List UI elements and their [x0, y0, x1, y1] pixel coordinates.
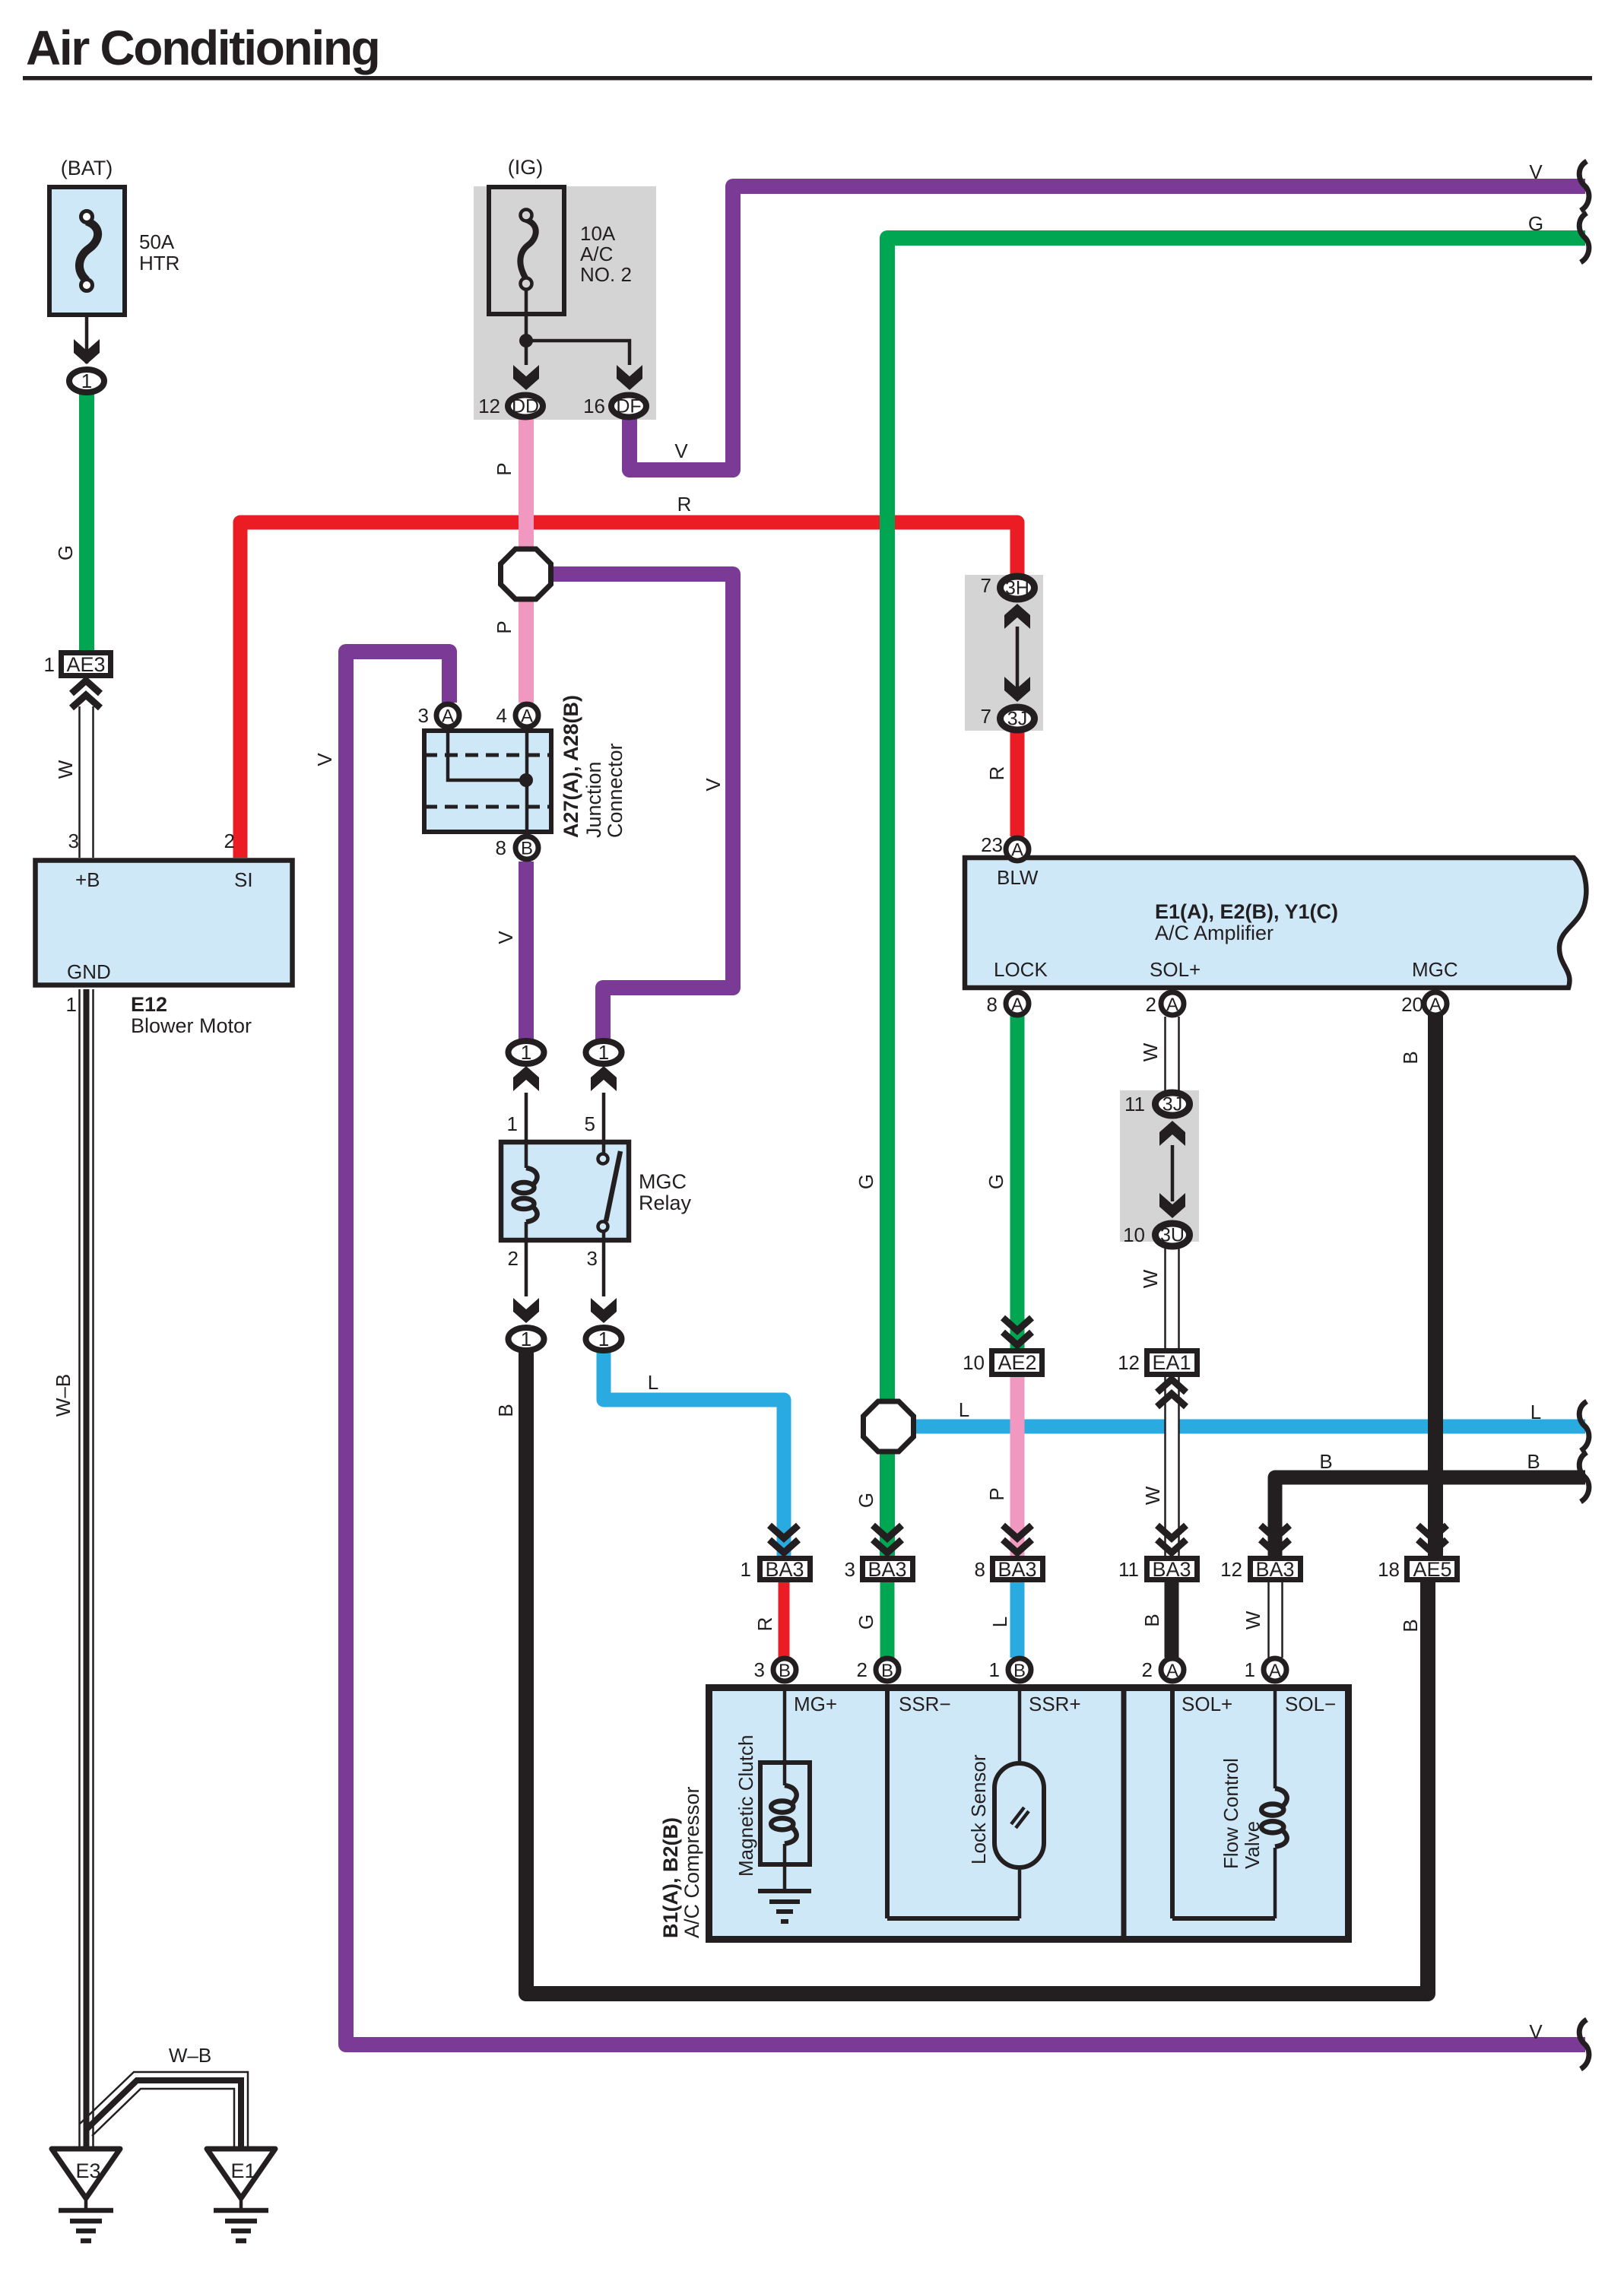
junction dot in IG block [519, 334, 533, 347]
svg-text:8: 8 [496, 836, 506, 859]
svg-text:W: W [1139, 1269, 1162, 1288]
svg-text:50A: 50A [139, 230, 175, 253]
ground E1 stem [239, 2198, 243, 2210]
lock sensor slashes [1011, 1807, 1024, 1824]
svg-text:EA1: EA1 [1152, 1351, 1191, 1374]
wire G green: 3 BA3 down to compressor pin 2 SSR- [880, 1582, 895, 1658]
svg-text:A: A [1429, 995, 1442, 1015]
A/C amplifier box with torn right edge [965, 858, 1586, 988]
svg-text:LOCK: LOCK [994, 958, 1048, 981]
svg-text:2: 2 [1146, 993, 1156, 1016]
connector circle B pin2 compressor [876, 1658, 899, 1681]
double chevron up below AE3 [71, 681, 100, 708]
svg-text:(IG): (IG) [508, 156, 544, 179]
flow control valve right leg lower [1274, 1848, 1277, 1918]
wire V purple: DF down, right, up, across top to right edge [630, 186, 1585, 470]
svg-text:E1(A), E2(B), Y1(C): E1(A), E2(B), Y1(C) [1155, 900, 1338, 923]
svg-text:A/C: A/C [580, 243, 613, 265]
connector circle A pin2 compressor [1161, 1658, 1184, 1681]
svg-text:BA3: BA3 [1152, 1558, 1191, 1581]
wire R red: blower SI up, across, down to 3H [240, 522, 1017, 858]
svg-text:10: 10 [963, 1351, 985, 1374]
connector circle B pin3 compressor [773, 1658, 796, 1681]
svg-text:A: A [1011, 995, 1023, 1015]
relay switch lead pin 3 [602, 1232, 606, 1296]
svg-text:1: 1 [507, 1112, 518, 1135]
svg-text:P: P [493, 620, 515, 633]
svg-text:(BAT): (BAT) [61, 157, 113, 179]
connector circle A pin4 junction [515, 704, 538, 727]
svg-text:1: 1 [598, 1328, 609, 1350]
junction connector internal wire from A4 to B8 [525, 730, 529, 833]
svg-text:16: 16 [583, 395, 605, 417]
svg-text:A/C Compressor: A/C Compressor [680, 1786, 703, 1938]
connector circle A pin1 compressor [1264, 1658, 1286, 1681]
svg-text:SOL+: SOL+ [1182, 1693, 1232, 1715]
svg-text:B: B [1399, 1619, 1422, 1632]
svg-text:DF: DF [616, 396, 641, 417]
svg-text:BA3: BA3 [868, 1558, 906, 1581]
wire L blue: 8 BA3 down to compressor pin 1 SSR+ [1010, 1582, 1025, 1658]
svg-text:7: 7 [981, 574, 991, 597]
relay coil [514, 1168, 538, 1222]
arrow down into relay pin3 lower connector [591, 1298, 617, 1323]
svg-text:V: V [674, 439, 688, 462]
compressor internal divider [1121, 1684, 1127, 1943]
double chevron down into 8 BA3 [1003, 1525, 1032, 1553]
svg-text:4: 4 [496, 704, 507, 727]
wire V purple: branch down from corner to relay pin 5 connector [550, 574, 733, 1040]
wire B black: horizontal from right edge to corner down into 12 BA3 [1275, 1477, 1585, 1556]
wire V purple: junction connector A3 left and long run down to bottom right edge [346, 652, 1585, 2045]
svg-text:W–B: W–B [169, 2044, 211, 2067]
wire W white: 12 EA1 down across L wire to 11 BA3 [1166, 1376, 1179, 1556]
wire W white: 12 BA3 down to compressor pin 1 SOL- [1269, 1582, 1283, 1658]
svg-text:2: 2 [224, 830, 235, 852]
wire W white: 10 3U down to 12 EA1 [1166, 1249, 1179, 1350]
svg-text:Connector: Connector [604, 743, 626, 838]
svg-text:B: B [1319, 1450, 1332, 1473]
svg-text:Blower Motor: Blower Motor [131, 1014, 252, 1037]
svg-text:10: 10 [1123, 1223, 1145, 1246]
squiggle break L right [1579, 1401, 1589, 1451]
svg-text:1: 1 [598, 1041, 609, 1064]
svg-text:P: P [985, 1487, 1008, 1500]
compressor magnetic clutch lead from pin 3 [783, 1684, 787, 1760]
double chevron down into 11 BA3 [1157, 1525, 1186, 1553]
svg-text:MGC: MGC [1412, 958, 1458, 981]
lock sensor circuit right leg lower [1018, 1870, 1022, 1918]
A/C compressor box [709, 1688, 1349, 1940]
wire R red: 3J down to amplifier pin 23 BLW [1010, 731, 1025, 836]
svg-text:G: G [54, 545, 77, 560]
svg-text:1: 1 [1245, 1658, 1255, 1681]
connector box 3 BA3 [863, 1559, 913, 1580]
magnetic clutch wire lower [783, 1844, 787, 1891]
connector ellipse 3H [1001, 576, 1035, 599]
wire P pink: 10 AE2 down to 8 BA3 [1010, 1376, 1025, 1556]
wire G green: long run from right edge, left, down to 3 BA3 and compressor SSR- [887, 238, 1585, 1556]
wire V purple: junction connector B8 down to relay pin 1 connector [519, 862, 534, 1040]
connector box 10 AE2 [992, 1351, 1042, 1375]
connector box 12 BA3 [1251, 1559, 1301, 1580]
svg-text:E1: E1 [230, 2159, 255, 2182]
svg-text:B: B [1140, 1614, 1163, 1626]
svg-text:1: 1 [989, 1658, 1000, 1681]
wire: BAT fuse to connector 1 [85, 317, 89, 363]
squiggle break V bottom right [1579, 2020, 1589, 2069]
svg-text:P: P [493, 462, 515, 475]
svg-text:L: L [959, 1398, 969, 1421]
connector box 8 BA3 [993, 1559, 1043, 1580]
svg-text:E12: E12 [131, 993, 167, 1016]
flow control valve right leg upper from pin 1 SOL- [1274, 1684, 1277, 1788]
svg-text:Relay: Relay [639, 1192, 692, 1214]
svg-text:R: R [753, 1617, 776, 1632]
svg-text:1: 1 [66, 993, 77, 1016]
svg-text:A: A [1011, 840, 1023, 861]
connector circle A pin23 amplifier [1006, 838, 1029, 861]
wire B black: 18 AE5 down, left along bottom, up to relay pin 2 connector [526, 1352, 1428, 1994]
svg-text:B: B [521, 839, 533, 859]
svg-text:2: 2 [1142, 1658, 1153, 1681]
junction connector A27(A),A28(B) box [424, 731, 551, 832]
svg-text:L: L [988, 1617, 1011, 1627]
svg-text:L: L [1530, 1401, 1541, 1423]
svg-text:V: V [494, 931, 517, 944]
svg-text:Magnetic Clutch: Magnetic Clutch [734, 1735, 757, 1877]
svg-text:SI: SI [234, 868, 253, 891]
junction connector internal dashed line upper [424, 754, 551, 757]
relay switch lead pin 5 [602, 1093, 606, 1153]
double chevron down into 18 AE5 [1418, 1525, 1447, 1553]
svg-text:3: 3 [587, 1247, 598, 1270]
connector ellipse 1 relay pin2 lower [509, 1328, 544, 1350]
svg-text:G: G [855, 1614, 877, 1629]
connector ellipse 1 relay pin1 [509, 1041, 544, 1064]
svg-text:12: 12 [478, 395, 500, 417]
svg-text:A: A [1269, 1661, 1281, 1681]
svg-text:A: A [442, 706, 454, 727]
svg-text:20: 20 [1401, 993, 1423, 1016]
svg-text:V: V [1529, 160, 1543, 183]
relay coil lead pin 1 [525, 1093, 528, 1168]
svg-text:1: 1 [44, 653, 55, 676]
svg-text:12: 12 [1220, 1558, 1242, 1581]
svg-text:GND: GND [67, 960, 111, 983]
arrow down into 3J [1004, 677, 1030, 702]
connector circle A pin20 amplifier [1424, 992, 1447, 1015]
svg-text:3: 3 [418, 704, 429, 727]
flow control valve bottom leg [1172, 1916, 1275, 1921]
svg-text:BA3: BA3 [998, 1558, 1036, 1581]
MGC relay box [501, 1142, 629, 1240]
relay switch contact top [598, 1154, 608, 1164]
svg-text:3U: 3U [1160, 1225, 1185, 1246]
magnetic clutch wire upper [783, 1760, 787, 1785]
svg-text:SOL−: SOL− [1285, 1693, 1336, 1715]
svg-text:Valve: Valve [1241, 1821, 1264, 1869]
svg-text:10A: 10A [580, 222, 616, 245]
lock sensor circuit left leg from pin 2 SSR- [885, 1684, 890, 1918]
svg-text:7: 7 [981, 705, 991, 728]
svg-text:2: 2 [508, 1247, 519, 1270]
magnetic clutch ground symbol [758, 1891, 811, 1921]
double chevron down into 1 BA3 [769, 1525, 798, 1553]
svg-text:3: 3 [845, 1558, 855, 1581]
double chevron down into 3 BA3 [873, 1525, 902, 1553]
gray background box of IG fuse block [474, 186, 656, 420]
magnetic clutch coil [771, 1785, 797, 1844]
connector ellipse 3J [1001, 707, 1035, 730]
connector box 18 AE5 [1407, 1559, 1457, 1580]
svg-text:18: 18 [1378, 1558, 1400, 1581]
svg-text:SSR+: SSR+ [1029, 1693, 1081, 1715]
arrow down into relay pin2 lower connector [513, 1298, 539, 1323]
wire W-B white-black: blower GND down to ground E3 [80, 989, 94, 2149]
svg-text:B: B [1013, 1661, 1026, 1681]
wire W white: amplifier pin 2 SOL+ down to 11 3J [1166, 1017, 1179, 1092]
svg-text:11: 11 [1118, 1558, 1139, 1581]
svg-text:V: V [313, 753, 336, 766]
octagon junction on G wire feeding L wire [864, 1401, 914, 1452]
connector ellipse 3U pin10 [1156, 1223, 1190, 1246]
double chevron down into 12 BA3 [1261, 1525, 1289, 1553]
svg-text:V: V [702, 778, 725, 792]
svg-text:BLW: BLW [997, 866, 1039, 889]
ground E3 triangle [52, 2149, 120, 2198]
wire between 3J and 3U arrows [1171, 1145, 1175, 1201]
svg-text:A27(A), A28(B): A27(A), A28(B) [560, 695, 582, 838]
svg-text:A: A [1166, 1661, 1178, 1681]
connector box 1 BA3 [760, 1559, 810, 1580]
fuse 50A HTR element symbol [79, 211, 97, 291]
connector ellipse DF [611, 395, 646, 417]
svg-text:W: W [1139, 1042, 1162, 1061]
squiggle break B right [1579, 1452, 1589, 1502]
fuse 10A A/C NO.2 element symbol [520, 210, 535, 290]
svg-text:A: A [1166, 995, 1178, 1015]
svg-text:E3: E3 [75, 2159, 100, 2182]
wire R red: 1 BA3 down to compressor pin 3 MG+ [779, 1582, 790, 1658]
arrow up below 3J pin11 [1159, 1121, 1185, 1146]
svg-text:3J: 3J [1162, 1094, 1182, 1115]
svg-text:V: V [1529, 2020, 1543, 2043]
fuse 50A HTR (BAT) box [49, 187, 125, 315]
arrow down into 3U [1159, 1193, 1185, 1218]
svg-text:AE5: AE5 [1413, 1558, 1451, 1581]
wire G green: battery fuse connector down to AE3 [79, 394, 94, 652]
wire between 3H and 3J arrows [1016, 627, 1020, 690]
svg-text:B1(A), B2(B): B1(A), B2(B) [659, 1817, 682, 1938]
arrow into DD connector [513, 365, 539, 390]
svg-text:G: G [1528, 212, 1543, 235]
svg-text:W: W [1141, 1486, 1164, 1505]
arrow up into relay pin1 connector [513, 1066, 539, 1091]
octagon junction on P wire [501, 549, 551, 599]
svg-text:B: B [881, 1661, 893, 1681]
ground E1 hatch [214, 2210, 268, 2241]
ground E3 stem [84, 2198, 88, 2210]
flow control valve left leg from pin 2 SOL+ [1170, 1684, 1175, 1918]
svg-text:SSR−: SSR− [899, 1693, 951, 1715]
svg-text:8: 8 [987, 993, 998, 1016]
svg-text:NO. 2: NO. 2 [580, 263, 632, 286]
svg-text:1: 1 [521, 1041, 531, 1064]
gray background box of 3J-3U connector pair [1120, 1090, 1199, 1242]
connector ellipse 3J pin11 [1156, 1093, 1190, 1115]
double chevron down into AE2 [1003, 1318, 1032, 1345]
svg-text:Air Conditioning: Air Conditioning [26, 21, 379, 75]
lock sensor circuit right leg upper from pin 1 SSR+ [1018, 1684, 1022, 1761]
relay switch blade [606, 1151, 620, 1221]
junction connector internal bus dot [519, 773, 533, 787]
svg-text:R: R [677, 493, 692, 516]
arrow up below 3H [1004, 604, 1030, 629]
svg-text:G: G [985, 1174, 1007, 1189]
svg-text:+B: +B [75, 868, 100, 891]
svg-text:1: 1 [81, 370, 92, 392]
flow control valve coil [1261, 1788, 1287, 1847]
title underline rule [23, 76, 1592, 81]
connector circle A pin2 amplifier [1161, 992, 1184, 1015]
lock sensor circuit bottom leg [887, 1916, 1020, 1921]
wire W white: AE3 down to blower +B pin [80, 706, 94, 858]
connector ellipse DD [508, 395, 543, 417]
svg-text:HTR: HTR [139, 252, 179, 274]
svg-text:3: 3 [68, 830, 79, 852]
svg-text:MG+: MG+ [794, 1693, 837, 1715]
fuse 10A A/C NO.2 (IG) box [489, 187, 564, 314]
wire G green: amplifier pin 8 LOCK down to 10 AE2 [1010, 1015, 1025, 1349]
connector ellipse 1 relay pin5 [586, 1041, 622, 1064]
svg-text:2: 2 [857, 1658, 868, 1681]
svg-text:B: B [779, 1661, 791, 1681]
svg-text:1: 1 [741, 1558, 751, 1581]
svg-text:3: 3 [754, 1658, 765, 1681]
svg-text:3J: 3J [1007, 709, 1027, 730]
svg-text:B: B [494, 1404, 517, 1417]
wire P pink: DD down through octagon to junction connector A4 [519, 418, 534, 703]
svg-text:5: 5 [585, 1112, 595, 1135]
svg-text:A: A [521, 706, 533, 727]
svg-text:B: B [1527, 1450, 1540, 1473]
connector box 12 EA1 [1147, 1351, 1197, 1375]
svg-text:Flow Control: Flow Control [1220, 1758, 1242, 1869]
squiggle break V top right [1579, 161, 1589, 211]
connector circle A pin8 amplifier [1006, 992, 1029, 1015]
svg-text:B: B [1399, 1051, 1422, 1064]
svg-text:Lock Sensor: Lock Sensor [967, 1754, 990, 1864]
svg-text:3H: 3H [1005, 578, 1029, 599]
wire B black: 11 BA3 down to compressor pin 2 SOL+ [1165, 1582, 1179, 1658]
svg-text:8: 8 [975, 1558, 985, 1581]
gray background box of 3H-3J connector pair [965, 575, 1043, 731]
arrow up into relay pin5 connector [591, 1066, 617, 1091]
connector circle A pin3 junction [436, 704, 459, 727]
arrow into BAT connector 1 [74, 339, 100, 364]
connector circle B pin1 compressor [1008, 1658, 1031, 1681]
connector box 11 BA3 [1147, 1559, 1197, 1580]
svg-text:Junction: Junction [582, 761, 605, 838]
wire B black: amplifier pin 20 MGC down to 18 AE5 [1428, 1015, 1443, 1556]
svg-text:W: W [54, 760, 77, 779]
wire: IG fuse down to junction dot [525, 290, 528, 365]
svg-text:G: G [855, 1493, 877, 1508]
magnetic clutch rectangle [760, 1763, 810, 1864]
relay switch contact bottom [598, 1222, 608, 1232]
svg-text:R: R [985, 766, 1008, 781]
svg-text:W: W [1242, 1610, 1264, 1629]
wire L blue: relay pin 3 connector down, right, down to 1 BA3 [604, 1352, 784, 1556]
svg-text:AE2: AE2 [998, 1351, 1036, 1374]
svg-text:11: 11 [1124, 1093, 1145, 1115]
svg-text:G: G [855, 1174, 877, 1189]
connector box AE3 [62, 653, 111, 676]
double chevron up below EA1 [1157, 1379, 1186, 1407]
svg-text:A/C Amplifier: A/C Amplifier [1155, 922, 1274, 944]
svg-text:BA3: BA3 [765, 1558, 804, 1581]
svg-text:DD: DD [512, 396, 539, 417]
squiggle break G top right [1579, 213, 1589, 262]
svg-text:12: 12 [1118, 1351, 1140, 1374]
wire W-B white-black: branch from main run to ground E1 [80, 2072, 248, 2149]
lock sensor stadium body [994, 1763, 1044, 1867]
svg-text:AE3: AE3 [66, 653, 105, 676]
connector ellipse 1 relay pin3 lower [586, 1328, 622, 1350]
relay coil lead pin 2 [525, 1222, 528, 1296]
junction connector internal dashed line lower [424, 805, 551, 809]
svg-text:MGC: MGC [639, 1170, 687, 1193]
wire L blue: from octagon junction right to right edge [912, 1420, 1585, 1434]
junction connector internal wire from A3 to bus dot [448, 730, 526, 780]
svg-text:1: 1 [521, 1328, 531, 1350]
arrow into DF connector [617, 365, 642, 390]
svg-text:W–B: W–B [52, 1374, 75, 1417]
svg-text:23: 23 [981, 833, 1003, 856]
ground E1 triangle [207, 2149, 275, 2198]
wire: junction dot right and down to DF [526, 341, 630, 365]
svg-text:BA3: BA3 [1255, 1558, 1294, 1581]
connector ellipse 1 below BAT fuse [69, 370, 104, 392]
ground E3 hatch [59, 2210, 113, 2241]
connector circle B pin8 junction [515, 836, 538, 859]
blower motor E12 box [36, 861, 293, 985]
svg-text:SOL+: SOL+ [1150, 958, 1201, 981]
svg-text:L: L [648, 1371, 658, 1394]
